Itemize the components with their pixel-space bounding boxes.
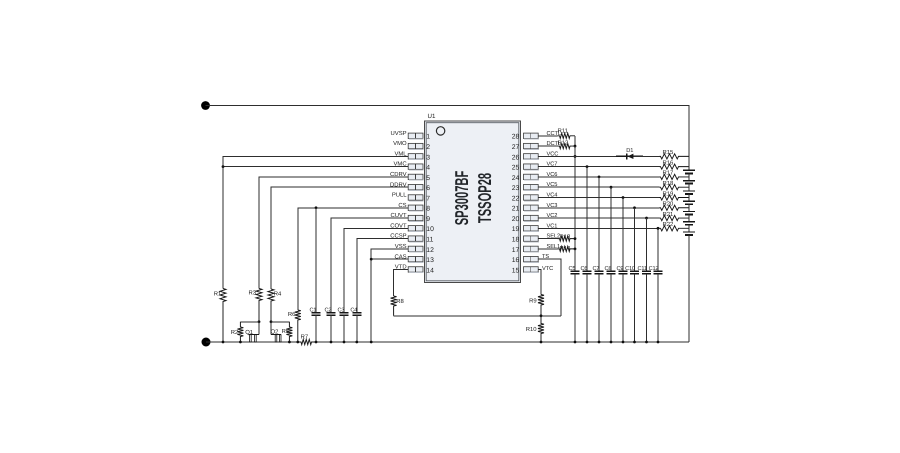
junction VC7 tap [586, 165, 589, 168]
junction VC4 tap [622, 196, 625, 199]
svg-text:15: 15 [512, 267, 520, 274]
label R16 [663, 159, 675, 166]
wire C7 to rail [598, 274, 600, 342]
junction C12-rail [657, 341, 660, 344]
junction C6-rail [586, 341, 589, 344]
junction C5-rail [574, 341, 577, 344]
svg-text:C8: C8 [605, 266, 612, 272]
U1 left pin name labels [390, 130, 407, 271]
junction CS-C1 tap [315, 206, 318, 209]
wire C4 to rail [356, 315, 358, 342]
svg-text:9: 9 [426, 216, 430, 223]
capacitor C3 [340, 313, 349, 316]
svg-text:R22: R22 [663, 221, 674, 228]
svg-text:5: 5 [426, 175, 430, 182]
wire VCC rail branch [574, 249, 576, 271]
junction C7-rail [598, 341, 601, 344]
resistor R19 [660, 195, 690, 200]
junction C10-rail [633, 341, 636, 344]
svg-text:VTC: VTC [542, 266, 553, 272]
svg-text:R7: R7 [301, 334, 309, 341]
wire SEL1 net [538, 248, 557, 250]
resistor R17 [660, 174, 690, 179]
junction VC2 tap [645, 217, 648, 220]
U1 right pin name labels [542, 131, 561, 272]
wire R11 down [574, 136, 576, 146]
junction VC1 tap [657, 227, 660, 230]
svg-text:6: 6 [426, 185, 430, 192]
wire VTC net [538, 269, 541, 294]
wire C10 to rail [634, 274, 636, 342]
svg-text:C3: C3 [338, 308, 345, 314]
label R7 [301, 334, 309, 341]
label R22 [663, 221, 674, 228]
transistor Q2 [271, 322, 281, 342]
capacitor C6 [583, 271, 592, 274]
junction R10-rail [540, 341, 543, 344]
svg-text:19: 19 [512, 226, 520, 233]
svg-text:Q2: Q2 [271, 329, 279, 336]
label R9 [529, 298, 537, 305]
wire C2 to rail [330, 315, 332, 342]
junction R9/R10 [540, 314, 543, 317]
resistor R3 [256, 289, 262, 322]
label R4 [274, 291, 282, 298]
junction R3-node [258, 320, 261, 323]
wire node A left [240, 321, 259, 323]
junction C4-rail [355, 341, 358, 344]
junction R4-node [270, 320, 273, 323]
svg-text:PULL: PULL [392, 192, 407, 199]
label Q1 [245, 329, 253, 336]
junction R2-rail [239, 341, 242, 344]
junction C8-rail [610, 341, 613, 344]
resistor R8 [391, 296, 397, 316]
svg-text:R6: R6 [288, 311, 296, 318]
junction VC5 tap [610, 186, 613, 189]
svg-text:16: 16 [512, 257, 520, 264]
label R11 [558, 127, 568, 134]
svg-text:28: 28 [512, 134, 520, 141]
svg-text:22: 22 [512, 195, 520, 202]
label D1 [626, 148, 633, 154]
resistor R1 [220, 289, 226, 343]
wire DDRV net [271, 187, 408, 289]
wire VC6 net [538, 176, 659, 178]
wire VC5 net [538, 186, 659, 188]
capacitor C12 [654, 271, 663, 274]
resistor R16 [660, 164, 690, 169]
wire VTD net [394, 269, 409, 296]
svg-text:R9: R9 [529, 298, 537, 305]
label C9 [617, 266, 624, 272]
resistor R18 [660, 185, 690, 190]
svg-text:C5: C5 [569, 266, 576, 272]
wire C12 to rail [657, 274, 659, 342]
node PACK+ terminal [201, 101, 210, 110]
junction VCC tap [574, 155, 577, 158]
svg-text:R2: R2 [231, 329, 239, 336]
wire VC2 net [538, 217, 659, 219]
wire VC5 branch [610, 187, 612, 271]
wire C8 to rail [610, 274, 612, 342]
label Q2 [271, 329, 279, 336]
junction R14 [574, 247, 577, 250]
resistor R2 [237, 322, 243, 342]
junction C9-rail [622, 341, 625, 344]
resistor R6 [295, 310, 301, 342]
junction VSS/CAS [370, 258, 373, 261]
svg-text:R21: R21 [663, 211, 674, 218]
wire CS net [298, 208, 408, 310]
wire CUVT net [331, 218, 408, 313]
capacitor C2 [327, 313, 336, 316]
capacitor C8 [607, 271, 616, 274]
svg-text:R16: R16 [663, 159, 675, 166]
svg-text:R19: R19 [663, 190, 674, 197]
wire SEL2 net [538, 238, 557, 240]
diode D1 [616, 153, 660, 159]
label R19 [663, 190, 674, 197]
label R3 [248, 290, 256, 297]
label R12 [558, 139, 569, 146]
svg-text:U1: U1 [428, 113, 436, 120]
wire VC6 branch [598, 177, 600, 271]
junction C3-rail [343, 341, 346, 344]
label C5 [569, 266, 576, 272]
junction R13 [574, 237, 577, 240]
wire VC4 branch [622, 197, 624, 271]
resistor R7 [298, 339, 316, 344]
wire VCC net [538, 155, 624, 157]
wire VC7 net [538, 166, 659, 168]
svg-text:R10: R10 [526, 326, 538, 333]
junction C2-rail [330, 341, 333, 344]
wire C11 to rail [646, 274, 648, 342]
svg-text:24: 24 [512, 175, 520, 182]
wire TS net [538, 259, 561, 316]
capacitor C1 [312, 313, 321, 316]
resistor R13 [558, 236, 576, 241]
wire CAS net [371, 258, 408, 260]
svg-text:3: 3 [426, 154, 430, 161]
resistor R14 [558, 246, 576, 251]
resistor R4 [268, 289, 274, 322]
label R15 [663, 149, 675, 156]
transistor Q1 [248, 322, 259, 342]
wire top rail [206, 106, 690, 157]
svg-text:27: 27 [512, 144, 520, 151]
svg-text:R17: R17 [663, 170, 674, 177]
wire bottom rail left [206, 341, 298, 343]
svg-text:VMO: VMO [393, 140, 407, 147]
svg-text:R5: R5 [282, 328, 290, 335]
junction R5-rail [288, 341, 291, 344]
svg-text:R3: R3 [248, 290, 256, 297]
svg-text:10: 10 [426, 226, 434, 233]
svg-text:7: 7 [426, 195, 430, 202]
junction C11-rail [645, 341, 648, 344]
label R14 [560, 245, 572, 252]
label R8 [396, 298, 404, 305]
svg-text:C6: C6 [581, 266, 588, 272]
op-amp U1 SP3007BF TSSOP28 [408, 113, 539, 283]
label R20 [663, 201, 675, 208]
capacitor C7 [595, 271, 604, 274]
wire bottom rail right [316, 341, 689, 343]
svg-text:12: 12 [426, 247, 434, 254]
capacitor C5 [571, 271, 580, 274]
wire VC3 net [538, 207, 659, 209]
label C12 [649, 266, 659, 272]
svg-text:R13: R13 [560, 233, 572, 240]
svg-text:R8: R8 [396, 298, 404, 305]
wire VC2 branch [646, 218, 648, 271]
svg-text:26: 26 [512, 154, 520, 161]
svg-text:R4: R4 [274, 291, 282, 298]
wire VC1 branch [657, 228, 659, 271]
capacitor C11 [642, 271, 651, 274]
svg-text:1: 1 [426, 134, 430, 141]
capacitor C4 [352, 313, 361, 316]
wire COVT net [344, 228, 408, 312]
resistor R10 [538, 316, 544, 342]
junction R1-rail [222, 341, 225, 344]
wire node B right [271, 321, 290, 323]
label R1 [214, 291, 222, 298]
svg-text:C1: C1 [310, 308, 317, 314]
svg-text:SP3007BF: SP3007BF [451, 171, 472, 226]
svg-text:R1: R1 [214, 291, 222, 298]
svg-text:C9: C9 [617, 266, 624, 272]
label C7 [593, 266, 600, 272]
wire VCC vertical [574, 146, 576, 271]
wire C5 to rail [574, 274, 576, 342]
svg-text:Q1: Q1 [245, 329, 253, 336]
svg-text:D1: D1 [626, 148, 633, 154]
wire R8 to TS/VTC junction [394, 315, 561, 317]
resistor R22 [660, 226, 690, 231]
svg-text:11: 11 [426, 237, 433, 244]
svg-text:4: 4 [426, 165, 430, 172]
wire VC7 branch [586, 167, 588, 272]
label R17 [663, 170, 674, 177]
svg-text:C11: C11 [638, 266, 647, 272]
svg-text:2: 2 [426, 144, 430, 151]
svg-text:25: 25 [512, 165, 520, 172]
svg-text:R15: R15 [663, 149, 675, 156]
label R2 [231, 329, 239, 336]
junction VC3 tap [633, 206, 636, 209]
resistor R20 [660, 205, 690, 210]
resistor R21 [660, 215, 690, 220]
wire C6 to rail [586, 274, 588, 342]
wire C1 to rail [315, 315, 317, 342]
svg-text:13: 13 [426, 257, 434, 264]
label C10 [625, 266, 635, 272]
label R10 [526, 326, 538, 333]
label R21 [663, 211, 674, 218]
svg-text:14: 14 [426, 267, 434, 274]
svg-text:C7: C7 [593, 266, 600, 272]
resistor R9 [538, 295, 544, 316]
battery cell stack BT1-BT7 [683, 156, 695, 342]
svg-text:R20: R20 [663, 201, 675, 208]
label C8 [605, 266, 612, 272]
wire VC3 branch [634, 208, 636, 271]
svg-text:R14: R14 [560, 245, 572, 252]
svg-text:C12: C12 [649, 266, 659, 272]
svg-text:C4: C4 [350, 308, 357, 314]
label C3 [338, 308, 345, 314]
wire VC1 net [538, 227, 659, 229]
label R6 [288, 311, 296, 318]
junction R6-rail [296, 341, 299, 344]
label C4 [350, 308, 357, 314]
resistor R11 [558, 133, 576, 138]
label C2 [325, 308, 332, 314]
svg-text:R11: R11 [558, 127, 568, 134]
svg-text:R18: R18 [663, 180, 675, 187]
wire C9 to rail [622, 274, 624, 342]
junction R12 [574, 145, 577, 148]
wire C3 to rail [343, 315, 345, 342]
label C1 [310, 308, 317, 314]
junction VC6 tap [598, 176, 601, 179]
resistor R15 [660, 154, 690, 159]
wire DCTL net [538, 145, 557, 147]
resistor R5 [286, 322, 292, 342]
svg-text:C10: C10 [625, 266, 635, 272]
wire VSS net [371, 249, 408, 342]
junction VSS-rail [370, 341, 373, 344]
wire CDRV net [259, 177, 408, 289]
svg-text:UVSP: UVSP [391, 130, 407, 137]
svg-text:TSSOP28: TSSOP28 [474, 173, 495, 223]
capacitor C10 [630, 271, 639, 274]
capacitor C9 [619, 271, 628, 274]
wire CCSP net [357, 239, 408, 313]
junction C1-rail [315, 341, 318, 344]
wire C1 branch [315, 208, 317, 313]
wire CCTL net [538, 135, 557, 137]
svg-text:20: 20 [512, 216, 520, 223]
label R18 [663, 180, 675, 187]
svg-text:23: 23 [512, 185, 520, 192]
wire VML net [223, 156, 408, 166]
label R13 [560, 233, 572, 240]
svg-text:18: 18 [512, 237, 520, 244]
wire VMC net [223, 166, 408, 168]
resistor R12 [558, 143, 576, 148]
label R5 [282, 328, 290, 335]
wire VML vertical to R1 [222, 167, 224, 289]
label C6 [581, 266, 588, 272]
node PACK- terminal [202, 338, 211, 347]
svg-text:8: 8 [426, 206, 430, 213]
junction VML/VMC [222, 165, 225, 168]
svg-text:17: 17 [512, 247, 520, 254]
svg-text:21: 21 [512, 206, 520, 213]
svg-text:R12: R12 [558, 139, 569, 146]
svg-text:C2: C2 [325, 308, 332, 314]
wire VC4 net [538, 196, 659, 198]
label C11 [638, 266, 647, 272]
